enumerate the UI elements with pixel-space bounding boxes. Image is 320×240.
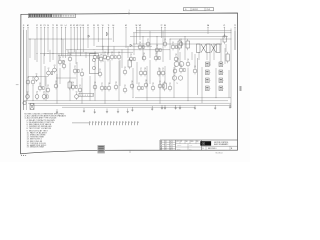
transistor Q2 bbox=[47, 68, 53, 76]
svg-text:Q1: Q1 bbox=[162, 68, 164, 70]
svg-text:Q4: Q4 bbox=[43, 92, 45, 94]
terminal pin 5 bbox=[102, 121, 103, 125]
bus wire bbox=[58, 55, 96, 57]
wire from terminal G4 bbox=[112, 27, 114, 42]
transistor Q1 bbox=[35, 74, 40, 82]
ground bbox=[175, 105, 177, 109]
wire from terminal C4 bbox=[47, 27, 49, 52]
terminal box TB14 bbox=[206, 86, 211, 91]
transistor Q53 bbox=[144, 80, 148, 88]
svg-text:Q5: Q5 bbox=[79, 85, 81, 87]
transistor Q32 bbox=[75, 92, 79, 100]
wire from terminal 5Y bbox=[36, 27, 38, 62]
revision strip (top left) bbox=[28, 14, 75, 18]
wire bbox=[225, 44, 227, 52]
svg-text:Q5: Q5 bbox=[124, 67, 126, 69]
wire bbox=[209, 52, 211, 66]
svg-text:4-71: 4-71 bbox=[170, 143, 173, 145]
title block bbox=[160, 140, 238, 151]
node bbox=[213, 43, 216, 46]
svg-text:4: 4 bbox=[85, 95, 86, 97]
wire from terminal R9 bbox=[56, 27, 58, 84]
ground bbox=[161, 105, 163, 109]
transistor Q46 bbox=[161, 68, 166, 76]
svg-text:PT: PT bbox=[181, 141, 183, 143]
wire bbox=[194, 54, 196, 68]
transistor Q30 bbox=[35, 92, 39, 100]
node bbox=[70, 48, 73, 51]
relay K6 bbox=[178, 39, 182, 50]
transistor Q55 bbox=[158, 81, 164, 89]
bus wire bbox=[135, 97, 231, 99]
terminal T2 bbox=[52, 25, 54, 60]
contact cross X2 bbox=[211, 44, 216, 53]
relay K4 bbox=[68, 80, 72, 90]
transistor Q17 bbox=[26, 77, 30, 85]
svg-text:Q9: Q9 bbox=[164, 39, 166, 41]
wire bbox=[45, 77, 47, 101]
terminal T1 bbox=[108, 25, 110, 53]
svg-text:Q6: Q6 bbox=[175, 54, 177, 56]
wire bbox=[127, 46, 129, 58]
ground bbox=[56, 109, 58, 113]
transistor Q24 bbox=[93, 82, 97, 90]
resistor R12 bbox=[115, 55, 117, 58]
svg-text:Q8: Q8 bbox=[27, 77, 29, 79]
svg-text:T3: T3 bbox=[177, 59, 179, 61]
svg-text:Q3: Q3 bbox=[36, 92, 38, 94]
svg-text:12: 12 bbox=[165, 141, 167, 143]
wire bbox=[109, 60, 111, 84]
svg-text:Q1: Q1 bbox=[39, 83, 41, 85]
transistor Q19 bbox=[38, 83, 44, 91]
ground bbox=[94, 109, 96, 113]
node bbox=[159, 102, 162, 105]
resistor R41 bbox=[159, 56, 161, 59]
svg-text:12: 12 bbox=[165, 149, 167, 151]
wire bbox=[121, 50, 123, 68]
terminal Z1 bbox=[223, 25, 225, 38]
wire from terminal K8 bbox=[82, 27, 84, 52]
transistor Q43 bbox=[139, 68, 144, 76]
transistor Q51 bbox=[130, 81, 134, 89]
wire from terminal A2 bbox=[27, 27, 29, 98]
wire bbox=[213, 44, 215, 60]
transistor Q54 bbox=[151, 83, 155, 91]
terminal strip TB1 bbox=[72, 121, 139, 125]
node bbox=[215, 96, 218, 99]
resistor R35 bbox=[160, 48, 162, 51]
ground bbox=[106, 109, 108, 113]
wire bbox=[184, 37, 186, 60]
transistor Q21 bbox=[54, 81, 58, 89]
transistor Q37 bbox=[171, 42, 177, 50]
node bbox=[36, 52, 39, 55]
transistor Q13 bbox=[117, 52, 122, 60]
terminal pin 16 bbox=[135, 121, 136, 125]
transistor Q16 bbox=[106, 53, 111, 61]
ground bbox=[117, 109, 119, 113]
transistor Q38 bbox=[179, 39, 183, 47]
contact block CB1 bbox=[197, 44, 221, 53]
wire bbox=[136, 62, 138, 84]
terminal R9 bbox=[56, 25, 58, 84]
svg-text:DES: DES bbox=[191, 141, 194, 143]
terminal box TB11 bbox=[206, 62, 211, 67]
bus wire bbox=[133, 32, 232, 34]
svg-text:Q7: Q7 bbox=[140, 68, 142, 70]
bus wire bbox=[40, 52, 96, 54]
resistor R37 bbox=[176, 45, 178, 48]
node bbox=[93, 48, 96, 51]
fold mark right bbox=[240, 86, 242, 91]
transistor Q14 bbox=[123, 67, 127, 75]
wire bbox=[215, 68, 217, 98]
wire bbox=[206, 52, 208, 60]
transistor Q22 bbox=[71, 82, 77, 90]
node bbox=[60, 38, 63, 41]
relay group bbox=[68, 34, 229, 91]
svg-text:Q4: Q4 bbox=[143, 53, 145, 55]
relay K5 bbox=[163, 81, 166, 91]
svg-text:4-71: 4-71 bbox=[170, 145, 173, 147]
svg-text:Q3: Q3 bbox=[111, 52, 113, 54]
svg-text:21-3: 21-3 bbox=[207, 9, 211, 11]
title header cells bbox=[176, 140, 202, 150]
node bbox=[142, 35, 145, 38]
terminal A2 bbox=[27, 24, 29, 98]
terminal box TB23 bbox=[219, 78, 224, 83]
wire bbox=[177, 44, 179, 62]
resistor R4 bbox=[63, 60, 65, 63]
bus wire bbox=[30, 104, 231, 106]
node bbox=[187, 99, 190, 102]
transistor Q3 bbox=[53, 65, 57, 73]
terminal box TB22 bbox=[219, 70, 224, 75]
node bbox=[52, 52, 55, 55]
transistor Q23 bbox=[78, 85, 82, 93]
resistor R22 bbox=[76, 85, 78, 88]
terminal M3 bbox=[76, 25, 78, 50]
wire from terminal B1 bbox=[61, 27, 63, 56]
node bbox=[169, 38, 172, 41]
svg-text:Q5: Q5 bbox=[76, 92, 78, 94]
svg-text:Q6: Q6 bbox=[139, 42, 141, 44]
terminal S2 bbox=[70, 25, 72, 56]
terminal pin 7 bbox=[108, 121, 109, 125]
terminal id strip bbox=[79, 93, 94, 97]
terminal pin 10 bbox=[117, 121, 118, 125]
transistor Q11 bbox=[103, 52, 107, 60]
fold mark bottom bbox=[129, 150, 131, 153]
transistor Q4 bbox=[58, 57, 64, 65]
module inner element bbox=[92, 58, 95, 69]
resistor R9 bbox=[98, 55, 100, 58]
transistor Q35 bbox=[155, 45, 161, 53]
svg-text:NO: NO bbox=[186, 141, 188, 143]
border frame bbox=[21, 13, 238, 154]
module enclosure U1 bbox=[89, 54, 99, 74]
transistor Q8 bbox=[80, 69, 84, 77]
drawing number strip (top right) bbox=[184, 8, 214, 12]
svg-text:Q2: Q2 bbox=[104, 52, 106, 54]
svg-text:Q4: Q4 bbox=[72, 82, 74, 84]
bus wire bbox=[62, 106, 195, 108]
svg-text:QTY: QTY bbox=[176, 141, 179, 143]
ground bbox=[151, 106, 153, 110]
terminal P3 bbox=[44, 25, 46, 56]
transistor Q25 bbox=[100, 83, 106, 91]
terminal pin 11 bbox=[120, 121, 121, 125]
node bbox=[47, 52, 50, 55]
resistor R19 bbox=[43, 86, 45, 89]
wire bbox=[56, 74, 58, 103]
wire from terminal N6 bbox=[164, 27, 166, 42]
wire bbox=[118, 61, 120, 101]
resistor R55 bbox=[163, 84, 165, 87]
svg-text:12: 12 bbox=[165, 145, 167, 147]
signal flag A bbox=[88, 35, 90, 37]
svg-text:Q9: Q9 bbox=[32, 77, 34, 79]
divider wire bbox=[197, 58, 199, 95]
title text bbox=[214, 142, 229, 146]
wire from terminal 8A bbox=[207, 27, 209, 34]
terminal pin 15 bbox=[132, 121, 133, 125]
wire bbox=[149, 60, 151, 84]
terminal pin 13 bbox=[126, 121, 127, 125]
bus wire bbox=[28, 102, 231, 104]
svg-text:Q7: Q7 bbox=[138, 83, 140, 85]
node bbox=[82, 38, 85, 41]
node bbox=[121, 48, 124, 51]
contact block CB3 bbox=[217, 44, 221, 53]
wire bbox=[191, 52, 193, 60]
wire bbox=[169, 39, 171, 60]
resistor R48 bbox=[184, 68, 186, 71]
resistor R25 bbox=[105, 86, 107, 89]
wire from terminal M3 bbox=[76, 27, 78, 50]
svg-text:Q5: Q5 bbox=[63, 61, 65, 63]
wire bbox=[85, 52, 87, 58]
wire bbox=[113, 46, 115, 55]
node bbox=[29, 38, 32, 41]
transistor Q29 bbox=[26, 92, 30, 100]
svg-text:88112: 88112 bbox=[193, 9, 198, 11]
wire from terminal Y2 bbox=[234, 27, 236, 50]
terminal R1 bbox=[97, 25, 99, 42]
wire bbox=[81, 78, 83, 103]
wire bbox=[179, 52, 181, 66]
terminal pin 3 bbox=[96, 121, 97, 125]
transistor Q39 bbox=[129, 54, 135, 62]
ground bbox=[194, 105, 196, 109]
resistor R52 bbox=[142, 86, 144, 89]
relay K7 bbox=[186, 39, 190, 50]
terminal pin 14 bbox=[129, 121, 130, 125]
wire bbox=[159, 68, 161, 103]
svg-text:CHK: CHK bbox=[189, 148, 192, 150]
terminal pin 12 bbox=[123, 121, 124, 125]
resistor R7 bbox=[78, 69, 80, 72]
wire bbox=[228, 70, 230, 98]
bus wire bbox=[24, 100, 228, 102]
node bbox=[102, 45, 105, 48]
drawing number row bbox=[202, 146, 238, 150]
bus wire bbox=[130, 36, 228, 38]
node bbox=[32, 99, 35, 102]
wire from terminal R1 bbox=[97, 27, 99, 42]
svg-text:4-71: 4-71 bbox=[170, 141, 173, 143]
terminal pin 1 bbox=[90, 121, 91, 125]
terminal W3 bbox=[139, 25, 142, 40]
svg-text:Q1: Q1 bbox=[124, 85, 126, 87]
transistor Q90 (left edge) bbox=[23, 101, 26, 104]
transformer stack TL bbox=[172, 59, 184, 86]
resistor R2 bbox=[51, 71, 53, 74]
terminal G4 bbox=[112, 25, 114, 42]
ground bbox=[179, 105, 181, 109]
wire bbox=[146, 66, 148, 101]
wire from terminal K1 bbox=[40, 27, 42, 88]
bus wire bbox=[29, 38, 113, 40]
svg-text:6: 6 bbox=[90, 95, 91, 97]
svg-text:Q6: Q6 bbox=[69, 54, 71, 56]
svg-text:Q2: Q2 bbox=[180, 39, 182, 41]
wire bbox=[94, 61, 96, 101]
node bbox=[156, 35, 159, 38]
transistor Q27 bbox=[114, 82, 118, 90]
wire from terminal V5 bbox=[102, 27, 104, 50]
terminal K1 bbox=[40, 25, 42, 88]
terminal box TB24 bbox=[219, 86, 224, 91]
wire from terminal T2 bbox=[52, 27, 54, 60]
svg-text:12: 12 bbox=[165, 143, 167, 145]
terminal J1 bbox=[23, 25, 25, 110]
relay K3 bbox=[226, 52, 229, 63]
transistor Q9 bbox=[93, 52, 99, 60]
svg-text:RD-88112: RD-88112 bbox=[216, 153, 223, 155]
wire bbox=[234, 31, 236, 50]
svg-text:Q4: Q4 bbox=[118, 52, 120, 54]
wire bbox=[162, 31, 164, 62]
wire bbox=[201, 67, 203, 103]
terminal F2 bbox=[87, 25, 89, 48]
terminal Y2 bbox=[234, 25, 236, 50]
transistor Q6 bbox=[68, 54, 72, 62]
wire from terminal Z1 bbox=[223, 27, 225, 38]
wire bbox=[164, 66, 166, 84]
wire bbox=[187, 68, 189, 101]
transistor Q20 bbox=[46, 85, 50, 93]
junction dots bbox=[30, 36, 217, 103]
wire bbox=[76, 62, 78, 86]
wire from terminal W3 bbox=[139, 27, 141, 40]
bus wire bbox=[66, 49, 170, 51]
resistor R31 bbox=[47, 95, 49, 98]
zone marker tick bbox=[129, 10, 130, 14]
wire bbox=[173, 67, 175, 98]
svg-text:Q2: Q2 bbox=[169, 83, 171, 85]
wire from terminal P1 bbox=[80, 27, 82, 56]
terminal 5Y bbox=[36, 25, 39, 62]
wire bbox=[32, 85, 34, 101]
terminal V5 bbox=[102, 25, 104, 50]
terminal 5E bbox=[135, 25, 137, 44]
horizontal bus group lower bbox=[24, 98, 231, 107]
terminal D5 bbox=[93, 25, 95, 46]
ground bbox=[127, 109, 129, 113]
terminal C4 bbox=[47, 25, 49, 52]
notes block bbox=[25, 113, 67, 148]
wire bbox=[132, 68, 134, 98]
wire bbox=[142, 37, 144, 60]
contact block CB2 bbox=[207, 44, 211, 53]
terminal box TB13 bbox=[206, 78, 211, 83]
ground bbox=[214, 105, 216, 109]
svg-text:Q7: Q7 bbox=[101, 83, 103, 85]
svg-text:CONTR: CONTR bbox=[177, 145, 181, 147]
corner specks bbox=[21, 155, 26, 156]
wire bbox=[69, 63, 71, 101]
resistor R33 bbox=[143, 45, 145, 48]
terminal pin 4 bbox=[99, 121, 100, 125]
svg-text:Q8: Q8 bbox=[81, 69, 83, 71]
terminal K8 bbox=[82, 25, 84, 52]
wire bbox=[133, 33, 135, 55]
svg-text:Q9: Q9 bbox=[152, 83, 154, 85]
fold mark left bbox=[16, 84, 19, 86]
resistor R39 bbox=[134, 57, 136, 60]
svg-text:Q3: Q3 bbox=[54, 65, 56, 67]
transistor Q41 bbox=[154, 53, 160, 61]
terminal box TB21 bbox=[219, 62, 224, 67]
wire bbox=[58, 53, 60, 60]
svg-text:RQ: RQ bbox=[197, 141, 199, 143]
wire bbox=[49, 50, 51, 62]
horizontal bus group upper right bbox=[130, 31, 232, 44]
ground bbox=[131, 107, 133, 111]
wire bbox=[89, 76, 91, 101]
transistor Q45 bbox=[157, 68, 161, 76]
wire bbox=[62, 39, 64, 58]
ground bbox=[83, 108, 85, 112]
horizontal bus group upper left bbox=[29, 39, 171, 56]
relay K1 bbox=[128, 58, 131, 69]
node bbox=[56, 102, 59, 105]
terminal N6 bbox=[164, 25, 166, 42]
transistor Q56 bbox=[168, 83, 172, 91]
wire from terminal F2 bbox=[87, 27, 89, 48]
revision table bbox=[160, 140, 176, 151]
wire bbox=[220, 39, 222, 62]
wire bbox=[44, 66, 46, 86]
logo cell bbox=[200, 141, 211, 145]
wire bbox=[107, 46, 109, 55]
wire bbox=[75, 50, 77, 64]
svg-text:Q2: Q2 bbox=[48, 68, 50, 70]
contact cross X1 bbox=[201, 44, 206, 53]
microfilm stamp bbox=[98, 145, 105, 153]
bus wire bbox=[136, 30, 232, 32]
node bbox=[40, 38, 43, 41]
terminal B1 bbox=[61, 25, 63, 56]
terminal box TB12 bbox=[206, 70, 211, 75]
svg-text:Q2: Q2 bbox=[47, 85, 49, 87]
wire from terminal H2 bbox=[125, 27, 127, 48]
terminal pin 6 bbox=[105, 121, 106, 125]
svg-text:Q7: Q7 bbox=[147, 39, 149, 41]
terminal pin 8 bbox=[111, 121, 112, 125]
